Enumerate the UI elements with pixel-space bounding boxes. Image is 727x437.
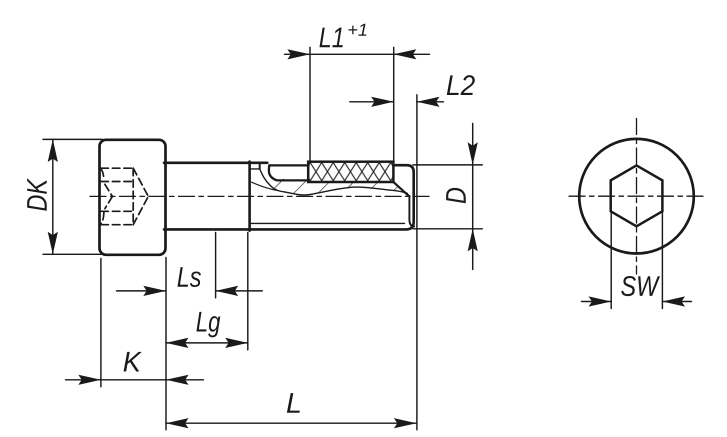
svg-text:+1: +1 [347, 20, 368, 40]
svg-text:Lg: Lg [196, 307, 221, 339]
svg-text:Ls: Ls [177, 262, 202, 294]
svg-text:L1: L1 [319, 22, 345, 54]
svg-text:DK: DK [22, 177, 54, 211]
svg-text:K: K [123, 347, 143, 379]
svg-text:L: L [286, 388, 302, 420]
svg-text:D: D [441, 187, 473, 204]
svg-text:L2: L2 [446, 70, 475, 102]
svg-text:SW: SW [620, 271, 660, 303]
